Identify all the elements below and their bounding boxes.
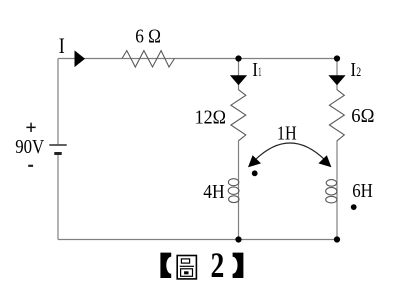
svg-text:90V: 90V (15, 137, 44, 158)
wire left vertical upper (source + terminal) (57, 59, 59, 146)
caption bracket right (lenticular) (233, 253, 244, 278)
node junction dot top branch2 (334, 55, 340, 61)
wire branch1 top segment (238, 59, 240, 91)
node junction dot top branch1 (235, 55, 241, 61)
wire left vertical lower (source - terminal) (57, 154, 59, 240)
svg-text:12Ω: 12Ω (195, 106, 226, 128)
inductor L1 4H coil loops (228, 179, 239, 203)
current arrow I on top wire (75, 50, 86, 67)
wire bottom horizontal (58, 239, 337, 241)
resistor R2 12 ohm (vertical zigzag) (231, 90, 246, 141)
wire branch2 top segment (336, 59, 338, 91)
node junction dot bottom branch2 (334, 236, 340, 242)
current arrow I2 (down) (328, 75, 345, 85)
coupling arrowhead right (318, 155, 331, 167)
svg-text:1: 1 (258, 64, 261, 79)
resistor R1 6 ohm (horizontal zigzag) (122, 51, 175, 67)
battery source 90V short plate (54, 152, 61, 155)
svg-text:6Ω: 6Ω (351, 105, 374, 127)
wire top horizontal (58, 58, 337, 60)
svg-text:2: 2 (356, 64, 361, 79)
caption bracket left (lenticular) (160, 253, 171, 278)
inductor L2 6H coil loops (326, 180, 337, 203)
node junction dot bottom branch1 (235, 236, 241, 242)
wire branch2 lower segment (336, 141, 338, 240)
battery source 90V long plate (49, 144, 66, 146)
caption character tu (figure) (177, 256, 196, 279)
svg-text:4H: 4H (203, 182, 224, 203)
svg-text:I: I (59, 33, 65, 58)
svg-text:6 Ω: 6 Ω (135, 26, 161, 48)
resistor R3 6 ohm (vertical zigzag) (329, 90, 344, 141)
svg-text:1H: 1H (277, 123, 297, 144)
wire branch1 lower segment (238, 141, 240, 240)
current arrow I1 (down) (230, 75, 247, 85)
svg-text:I: I (252, 59, 258, 81)
coupling arrowhead left (248, 155, 261, 167)
coupling dot L1 (252, 170, 258, 176)
mutual coupling arc 1H (255, 143, 325, 160)
coupling dot L2 (351, 204, 357, 210)
label - (source negative) (28, 165, 33, 167)
label + (source positive) (26, 123, 35, 132)
svg-text:6H: 6H (352, 181, 373, 202)
svg-text:2: 2 (211, 245, 225, 285)
